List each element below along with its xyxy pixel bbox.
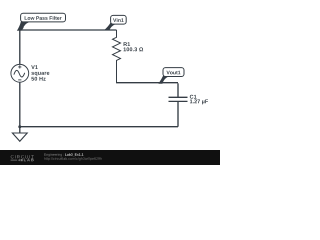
ground xyxy=(12,127,27,142)
capacitor C1 xyxy=(169,83,208,126)
wire left column upper xyxy=(19,29,21,64)
junction dot ground node xyxy=(18,125,21,128)
wire middle Vout net xyxy=(117,82,179,84)
node flag Vout1 xyxy=(158,68,184,84)
wire left column lower xyxy=(19,82,21,127)
wire bottom ground net xyxy=(20,126,178,128)
node flag Vin1 xyxy=(104,15,126,30)
wire top Vin net xyxy=(20,29,117,31)
node flag Low Pass Filter xyxy=(17,13,66,31)
resistor R1 xyxy=(113,30,144,83)
voltage source V1 xyxy=(11,64,49,82)
